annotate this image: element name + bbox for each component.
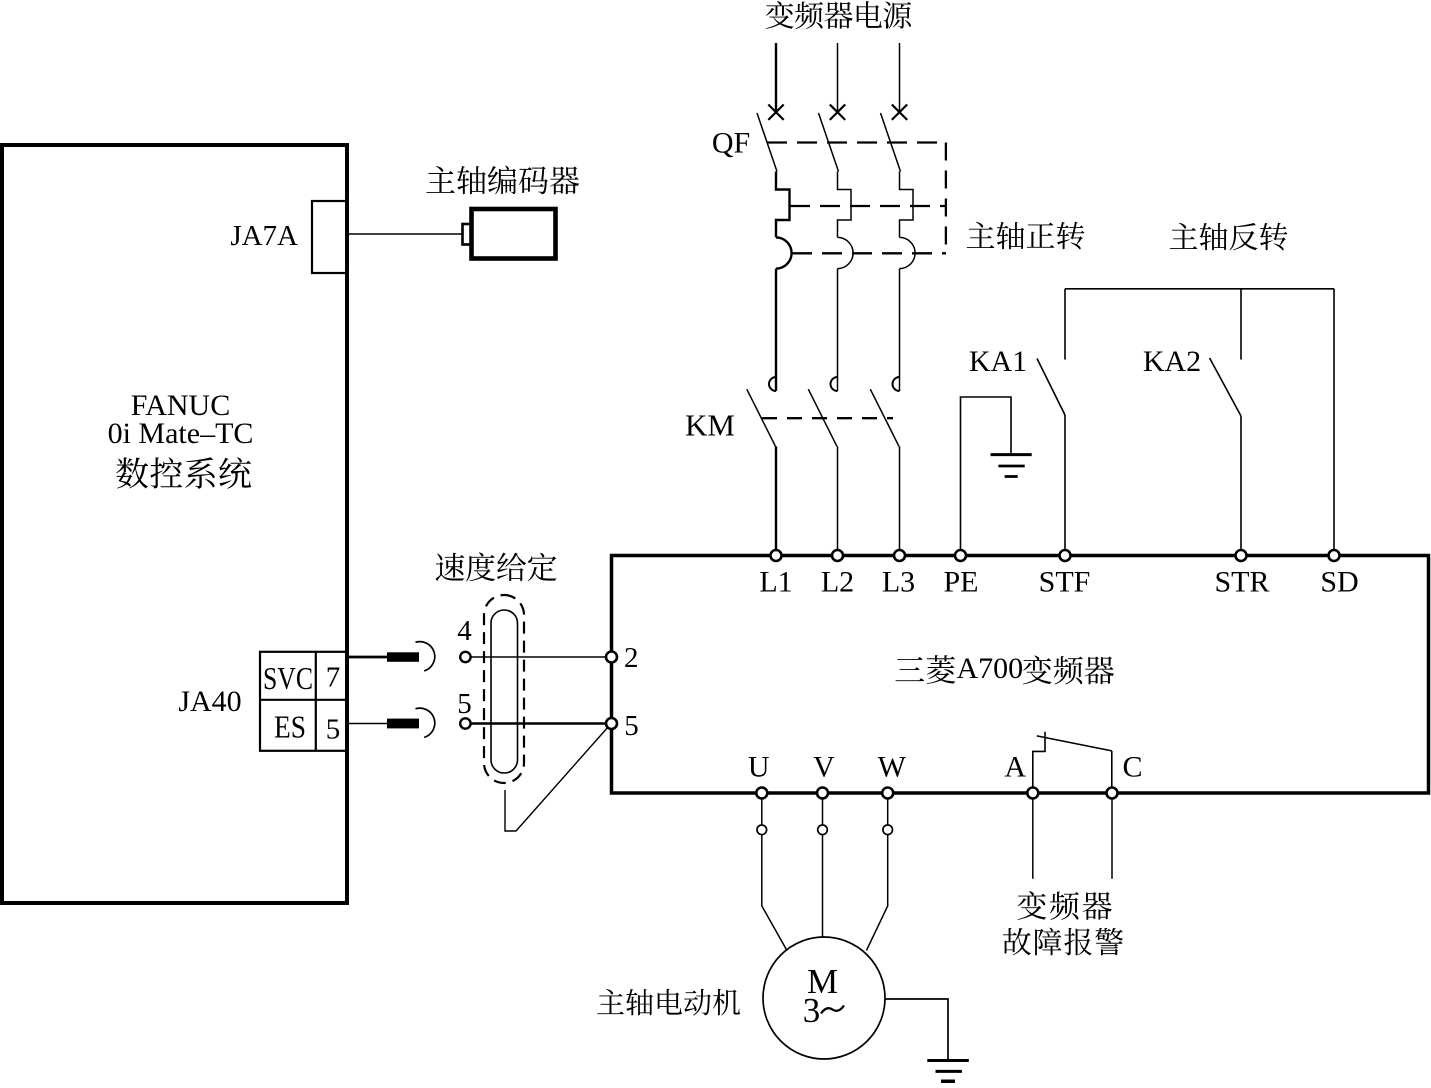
wire SD riser — [1333, 289, 1335, 550]
terminal U — [756, 788, 767, 799]
terminal 5 (inverter) — [606, 718, 617, 729]
svg-text:SVC: SVC — [263, 660, 313, 696]
relay contact KA1 — [1037, 359, 1065, 416]
circuit breaker QF pole 2 — [819, 105, 854, 392]
terminal L1 — [771, 550, 782, 561]
contactor KM pole 1 — [747, 377, 776, 550]
plug contact U — [757, 825, 767, 835]
svg-text:L1: L1 — [759, 566, 792, 599]
wire KA1 to STF — [1064, 415, 1066, 550]
wire power feed L2 — [837, 43, 839, 111]
svg-text:V: V — [813, 751, 835, 784]
wire alarm A — [1032, 799, 1034, 879]
svg-text:SD: SD — [1320, 566, 1358, 599]
FANUC 0i Mate-TC CNC system box — [2, 145, 347, 903]
wire motor to ground — [885, 999, 948, 1059]
wire top bus STF-SD — [1065, 288, 1334, 290]
terminal 2 — [606, 652, 617, 663]
terminal W — [882, 788, 893, 799]
wire SVC analog output — [348, 656, 388, 659]
wire W to motor — [866, 835, 887, 951]
svg-text:L2: L2 — [821, 566, 854, 599]
circuit breaker QF pole 1 — [757, 105, 792, 392]
shielded cable inner — [491, 610, 518, 773]
wire PE riser — [961, 397, 1012, 550]
wire U to plug — [761, 799, 763, 826]
label 速度给定 — [436, 553, 465, 581]
label 主轴反转 — [1170, 223, 1198, 249]
label 数控系统 — [116, 457, 148, 488]
terminal L3 — [894, 550, 905, 561]
relay contact KA2 — [1210, 358, 1241, 416]
svg-text:3: 3 — [803, 991, 821, 1030]
label 主轴电动机 — [597, 989, 624, 1014]
terminal STF — [1060, 550, 1071, 561]
svg-text:L3: L3 — [882, 566, 915, 599]
svg-text:2: 2 — [624, 642, 639, 674]
cable shield arc SVC — [416, 642, 435, 671]
plug contact W — [883, 825, 893, 835]
connector JA40 table — [260, 652, 347, 751]
svg-text:5: 5 — [326, 714, 341, 746]
wire KA2 upper stub — [1240, 289, 1242, 360]
svg-text:0i Mate–TC: 0i Mate–TC — [108, 417, 254, 450]
wire KA1 upper stub — [1064, 289, 1066, 360]
QF thermal trip link (dashed) — [790, 205, 946, 207]
svg-text:5: 5 — [624, 710, 639, 742]
contactor KM pole 3 — [870, 377, 899, 550]
motor M 3~ — [763, 937, 885, 1059]
wire power feed L1 — [775, 43, 777, 111]
svg-text:W: W — [878, 751, 907, 784]
label 三菱A700变频器 — [895, 657, 924, 681]
circuit breaker QF pole 3 — [881, 105, 916, 392]
svg-text:C: C — [1122, 751, 1142, 784]
spindle encoder — [463, 224, 472, 245]
ground motor earth symbol — [927, 1059, 969, 1062]
label 主轴正转 — [967, 222, 995, 248]
wire JA7A to encoder — [347, 233, 463, 235]
svg-text:5: 5 — [457, 688, 472, 720]
KM mechanical link (dashed) — [762, 417, 893, 419]
node 4 — [460, 652, 470, 662]
terminal STR — [1236, 550, 1247, 561]
label 变频器电源 — [766, 1, 794, 29]
wire W to plug — [887, 799, 889, 826]
Mitsubishi A700 inverter box — [612, 556, 1429, 794]
terminal PE — [955, 550, 966, 561]
ground PE earth symbol — [991, 453, 1032, 456]
cable clamp SVC (black bar) — [387, 652, 419, 662]
wire power feed L3 — [899, 43, 901, 111]
svg-text:KA2: KA2 — [1143, 345, 1201, 378]
terminal V — [817, 788, 828, 799]
svg-text:STR: STR — [1214, 566, 1269, 599]
svg-text:U: U — [748, 751, 770, 784]
label 变频器故障报警 — [1017, 891, 1046, 920]
svg-text:QF: QF — [712, 127, 750, 160]
wire node5 to terminal 5 — [471, 722, 607, 724]
shield drain wire — [505, 727, 609, 832]
cable clamp ES (black bar) — [387, 719, 419, 729]
wire node4 to terminal 2 — [471, 656, 607, 658]
contactor KM pole 2 — [808, 377, 837, 550]
svg-text:A: A — [1004, 751, 1026, 784]
wire ES 0V — [348, 723, 388, 725]
wire KA2 to STR — [1240, 416, 1242, 550]
shielded cable screen (dashed stadium) — [484, 595, 524, 783]
svg-text:STF: STF — [1039, 566, 1091, 599]
svg-text:JA7A: JA7A — [230, 220, 298, 252]
QF trip unit link vertical (dashed) — [945, 143, 947, 254]
wire alarm C — [1111, 799, 1113, 879]
svg-text:4: 4 — [457, 615, 472, 647]
svg-text:ES: ES — [274, 709, 306, 745]
terminal SD — [1329, 550, 1340, 561]
label 主轴编码器 — [426, 166, 454, 193]
svg-text:JA40: JA40 — [178, 685, 241, 718]
QF mechanical link (dashed) — [767, 141, 946, 143]
wire V to motor — [822, 835, 824, 937]
terminal L2 — [832, 550, 843, 561]
node 5 — [460, 718, 470, 728]
connector JA7A — [312, 201, 347, 273]
svg-text:A700: A700 — [957, 652, 1024, 685]
wire U to motor — [762, 835, 787, 951]
svg-text:KM: KM — [685, 408, 735, 443]
QF magnetic trip link (dashed) — [792, 252, 946, 254]
cable shield arc ES — [416, 708, 435, 737]
inverter alarm contact A-C — [1033, 732, 1045, 788]
svg-text:PE: PE — [943, 566, 978, 599]
plug contact V — [818, 825, 828, 835]
terminal A — [1027, 788, 1038, 799]
svg-text:7: 7 — [326, 662, 341, 694]
wire V to plug — [822, 799, 824, 826]
svg-text:KA1: KA1 — [969, 345, 1027, 378]
terminal C — [1107, 788, 1118, 799]
